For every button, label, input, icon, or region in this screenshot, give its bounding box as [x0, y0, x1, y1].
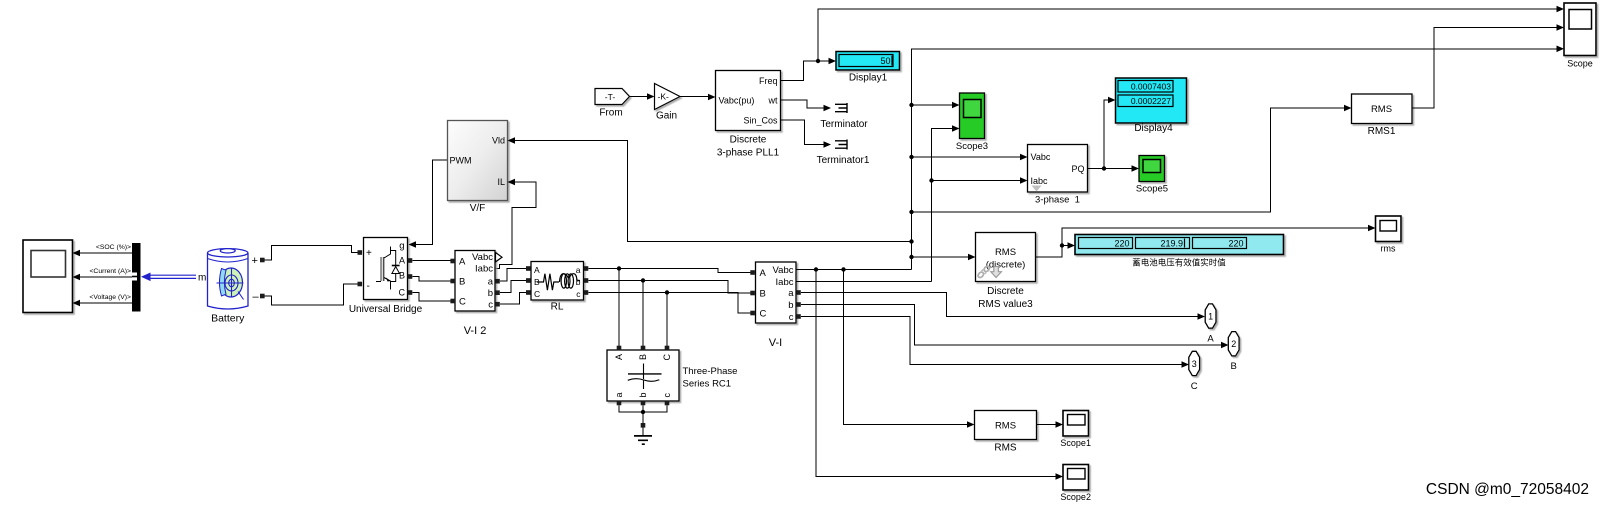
svg-text:Three-Phase: Three-Phase — [683, 366, 738, 377]
svg-text:1: 1 — [1208, 312, 1213, 322]
RMS discrete block — [976, 233, 1036, 311]
wire Vabc drop to RMS — [844, 270, 969, 425]
junction Vabc to RMS1 feed — [909, 210, 913, 214]
ground port square — [641, 423, 646, 428]
svg-text:C: C — [662, 354, 672, 361]
svg-text:c: c — [662, 393, 672, 398]
svg-text:B: B — [1231, 361, 1237, 372]
wire PLL wt to Terminator — [781, 100, 832, 111]
svg-text:IL: IL — [497, 177, 505, 187]
RC1 top ports — [617, 346, 622, 351]
svg-text:Series RC1: Series RC1 — [683, 379, 732, 390]
svg-text:Discrete: Discrete — [730, 135, 767, 146]
svg-text:Battery: Battery — [211, 313, 245, 325]
svg-text:PWM: PWM — [450, 156, 472, 166]
junction Vabc to V/F Vld feed — [909, 239, 913, 243]
svg-text:a: a — [488, 277, 494, 288]
scope block Scope (battery measurements, left) — [23, 240, 73, 313]
junction Iabc to 3-phase Iabc — [929, 178, 933, 182]
svg-text:B: B — [459, 277, 465, 288]
wire drop b to RC1 B — [642, 281, 644, 348]
terminator Terminator1 — [817, 140, 870, 167]
svg-text:3-phase 1: 3-phase 1 — [1035, 195, 1080, 206]
RC1 bottom ports — [617, 401, 622, 406]
svg-text:PQ: PQ — [1071, 164, 1084, 174]
junction on RC1 ground bus — [641, 410, 645, 414]
wire RMS1 to Scope in2 — [1412, 24, 1564, 108]
svg-text:A: A — [534, 265, 540, 275]
svg-text:Iabc: Iabc — [1031, 176, 1049, 186]
RL block — [531, 262, 584, 313]
wire bridge C to V-I 2 C — [412, 293, 450, 302]
display Display4 — [1116, 78, 1187, 134]
scope Scope3 — [956, 93, 988, 152]
svg-text:B: B — [760, 289, 766, 300]
svg-text:RMS: RMS — [995, 421, 1016, 432]
svg-text:0.0007403: 0.0007403 — [1131, 82, 1171, 92]
outport 3 — [1189, 351, 1200, 392]
svg-text:Vabc: Vabc — [1031, 152, 1051, 162]
wire V-I 2 a to RL A — [500, 269, 527, 282]
V-I 2 output ports a b c — [495, 279, 500, 284]
svg-text:a: a — [788, 288, 794, 299]
wire bridge B to V-I 2 B — [412, 277, 450, 282]
V-I output ports a b c — [796, 290, 801, 295]
wire V-I Vabc to junction column — [796, 269, 912, 271]
wire RMS discrete to voltage display and rms scope — [1036, 225, 1376, 257]
universal bridge ports + - — [358, 250, 363, 255]
svg-text:3-phase PLL1: 3-phase PLL1 — [717, 148, 780, 159]
outport 2 — [1228, 332, 1239, 373]
wire RL b to V-I B — [588, 281, 750, 294]
battery Battery — [208, 249, 260, 325]
V-I 2 input ports — [450, 259, 455, 264]
svg-text:Universal Bridge: Universal Bridge — [349, 304, 423, 315]
svg-text:rms: rms — [1381, 244, 1396, 254]
svg-text:From: From — [599, 108, 622, 119]
svg-text:b: b — [638, 392, 648, 397]
universal bridge output ports A B C — [408, 258, 413, 263]
svg-text:b: b — [788, 300, 793, 311]
svg-text:蓄电池电压有效值实时值: 蓄电池电压有效值实时值 — [1132, 258, 1226, 268]
scope rms — [1376, 216, 1402, 254]
svg-text:220: 220 — [1114, 239, 1129, 249]
svg-text:Vabc: Vabc — [773, 265, 794, 276]
svg-text:A: A — [614, 354, 624, 360]
svg-text:2: 2 — [1231, 339, 1236, 349]
V-I measurement block — [756, 262, 797, 349]
svg-text:wt: wt — [768, 96, 778, 106]
wire 3-phase PQ to Display4 and Scope5 — [1088, 97, 1140, 172]
svg-text:Vabc(pu): Vabc(pu) — [719, 96, 755, 106]
svg-text:RMS1: RMS1 — [1368, 126, 1396, 137]
scope Scope (top right) — [1564, 3, 1596, 69]
wire V-I 2 b to RL B — [500, 281, 527, 293]
junction Vabc to RMS drop — [841, 267, 845, 271]
svg-text:Discrete: Discrete — [987, 286, 1024, 297]
svg-text:0.0002227: 0.0002227 — [1131, 96, 1171, 106]
battery - port — [260, 294, 265, 299]
wire From to Gain — [630, 93, 655, 100]
wire V/F PWM to bridge g — [409, 160, 448, 248]
svg-text:c: c — [488, 300, 493, 311]
svg-text:Vld: Vld — [492, 136, 505, 146]
svg-text:(discrete): (discrete) — [986, 260, 1026, 271]
gain Gain — [655, 84, 681, 122]
bus selector bar — [132, 243, 141, 312]
svg-text:Scope5: Scope5 — [1136, 184, 1168, 195]
svg-text:Terminator1: Terminator1 — [817, 155, 870, 166]
svg-text:50: 50 — [880, 56, 890, 66]
svg-text:Scope3: Scope3 — [956, 141, 988, 152]
wire V-I 2 Iabc to V/F IL — [496, 179, 537, 269]
RMS block (bottom) — [975, 411, 1037, 454]
RMS1 block — [1352, 94, 1413, 137]
wire battery- to bridge- — [265, 284, 358, 305]
svg-text:RMS value3: RMS value3 — [978, 299, 1033, 310]
svg-text:+: + — [252, 255, 258, 267]
svg-text:<Current (A)>: <Current (A)> — [89, 268, 131, 275]
svg-text:RMS: RMS — [1371, 104, 1392, 115]
svg-text:V/F: V/F — [470, 203, 486, 214]
svg-text:B: B — [399, 271, 405, 281]
svg-text:Vabc: Vabc — [472, 252, 493, 263]
scope Scope2 — [1060, 465, 1091, 503]
RL output ports — [584, 266, 589, 271]
From tag — [595, 89, 630, 119]
scope Scope1 — [1060, 411, 1091, 449]
wire RC1 bottom bus — [619, 405, 667, 423]
svg-text:Terminator: Terminator — [820, 119, 868, 130]
svg-text:RMS: RMS — [994, 443, 1017, 454]
svg-text:Scope1: Scope1 — [1060, 438, 1091, 448]
svg-text:a: a — [614, 392, 624, 397]
wire RL c to V-I C — [588, 293, 750, 314]
svg-text:CSDN @m0_72058402: CSDN @m0_72058402 — [1426, 481, 1589, 498]
wire drop c to RC1 C — [666, 293, 668, 348]
wire Current into Scope — [73, 268, 134, 280]
svg-text:<SOC (%)>: <SOC (%)> — [96, 244, 131, 251]
3-phase 1 power block — [1028, 145, 1088, 206]
svg-text:V-I: V-I — [769, 337, 782, 349]
junction on RL c wire — [665, 290, 669, 294]
svg-text:Gain: Gain — [656, 111, 677, 122]
discrete 3-phase PLL1 block — [716, 71, 781, 159]
wire Gain to PLL — [680, 94, 716, 101]
wire battery+ to bridge+ — [265, 246, 358, 261]
wire drop a to RC1 A — [618, 269, 620, 348]
ground symbol — [634, 428, 652, 445]
terminator Terminator — [820, 103, 868, 130]
junction Vabc to 3-phase Vabc — [909, 155, 913, 159]
battery + port — [260, 258, 265, 263]
display Display1 — [836, 52, 900, 84]
wire Vabc junction to V/F Vld — [508, 137, 912, 241]
Three-Phase Series RC1 block — [607, 350, 737, 401]
wire V-I Iabc to column — [796, 281, 932, 283]
svg-text:c: c — [789, 312, 794, 323]
V-I 2 measurement block — [455, 251, 495, 338]
svg-text:m: m — [198, 273, 206, 284]
junction on RL b wire — [641, 278, 645, 282]
junction Vabc to RMS discrete — [909, 255, 913, 259]
svg-text:Display1: Display1 — [849, 73, 888, 84]
wire SOC into Scope — [73, 244, 134, 256]
wire V-I b to outport 2 — [801, 305, 1223, 346]
junction Vabc to Scope2 drop — [814, 267, 818, 271]
svg-text:Freq: Freq — [759, 76, 778, 86]
wire V-I c to outport 3 — [801, 317, 1183, 365]
svg-text:<Voltage (V)>: <Voltage (V)> — [89, 294, 131, 301]
svg-text:C: C — [459, 297, 466, 308]
svg-text:C: C — [534, 289, 540, 299]
svg-text:-T-: -T- — [605, 92, 616, 102]
svg-text:219.9: 219.9 — [1160, 239, 1183, 249]
universal bridge block — [349, 238, 423, 316]
wire battery m to bus selector (vector double line) — [141, 273, 206, 284]
svg-text:Sin_Cos: Sin_Cos — [743, 116, 778, 126]
svg-text:A: A — [399, 256, 405, 266]
svg-text:Display4: Display4 — [1134, 123, 1173, 134]
junction on RL a wire — [617, 266, 621, 270]
svg-text:g: g — [399, 241, 404, 252]
svg-text:A: A — [760, 268, 767, 279]
svg-text:-K-: -K- — [658, 92, 670, 102]
wire bridge A to V-I 2 A — [412, 260, 450, 262]
svg-text:RL: RL — [551, 302, 564, 313]
voltage display (220 219.9 220) — [1075, 235, 1284, 268]
wire PLL Freq to Display1 and Scope in1 — [781, 6, 1565, 81]
junction Vabc to Scope3 in1 — [909, 103, 913, 107]
svg-text:A: A — [1207, 334, 1214, 345]
V/F block — [448, 121, 508, 215]
wire RL a to V-I A — [588, 269, 750, 273]
svg-text:b: b — [488, 288, 493, 299]
svg-text:+: + — [366, 248, 372, 259]
wire V-I a to outport 1 — [801, 293, 1199, 317]
wire Vabc column up to Scope in3 — [912, 49, 1558, 270]
svg-text:a: a — [576, 265, 581, 275]
V-I input ports — [750, 270, 755, 275]
outport 1 — [1205, 304, 1216, 345]
wire RMS to Scope1 — [1037, 421, 1064, 428]
RL input ports — [526, 266, 531, 271]
svg-text:A: A — [459, 257, 466, 268]
svg-text:C: C — [1191, 381, 1198, 392]
wire Voltage into Scope — [73, 294, 134, 306]
svg-text:Scope2: Scope2 — [1060, 492, 1091, 502]
svg-text:-: - — [367, 281, 370, 292]
svg-text:Scope: Scope — [1567, 59, 1593, 69]
wire PLL Sin_Cos to Terminator1 — [781, 120, 832, 148]
svg-text:C: C — [399, 288, 406, 298]
svg-text:Iabc: Iabc — [776, 277, 794, 288]
wire V-I 2 c to RL C — [500, 293, 527, 305]
svg-text:Iabc: Iabc — [475, 264, 493, 275]
universal bridge IGBT/diode icon — [376, 247, 400, 290]
V-I 2 Vabc unconnected output arrow — [496, 253, 503, 262]
svg-text:V-I 2: V-I 2 — [464, 325, 487, 337]
svg-text:B: B — [638, 354, 648, 360]
svg-text:–: – — [253, 291, 260, 303]
svg-text:3: 3 — [1192, 359, 1197, 369]
svg-text:C: C — [760, 309, 767, 320]
svg-text:220: 220 — [1228, 239, 1243, 249]
svg-text:RMS: RMS — [995, 247, 1016, 258]
wire Iabc column up to Scope3 in2 — [932, 129, 954, 282]
wire Vabc drop to Scope2 — [816, 270, 1057, 477]
scope Scope5 — [1136, 156, 1168, 195]
